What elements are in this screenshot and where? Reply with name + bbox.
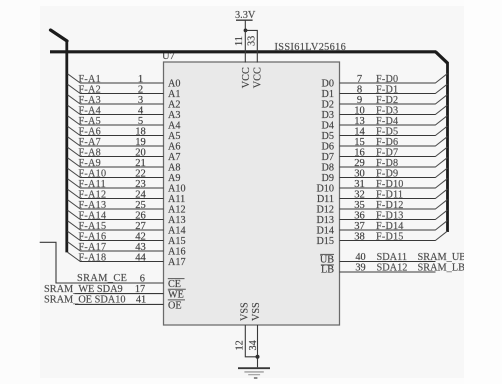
svg-text:5: 5 xyxy=(138,116,143,127)
svg-text:SDA11: SDA11 xyxy=(377,252,408,263)
bus entry for F-D11 xyxy=(435,189,447,198)
pin name A7 xyxy=(168,152,180,163)
net label F-A14 xyxy=(79,210,107,221)
net label F-A15 xyxy=(79,221,107,232)
pin name A17 xyxy=(168,257,186,268)
pin number 7 xyxy=(357,74,362,85)
pin name A3 xyxy=(168,110,180,121)
bus entry for F-D0 xyxy=(435,74,447,83)
net label SRAM_UB xyxy=(418,252,467,263)
pin name D4 xyxy=(322,121,334,132)
data bus bend (top-right diagonal) xyxy=(436,52,448,63)
svg-text:14: 14 xyxy=(354,126,365,137)
net label F-D2 xyxy=(376,95,398,106)
svg-text:F-A12: F-A12 xyxy=(79,189,107,200)
pin number 18 xyxy=(135,126,146,137)
net label F-D8 xyxy=(376,158,398,169)
svg-text:SDA12: SDA12 xyxy=(377,263,408,274)
pin number 26 xyxy=(135,210,146,221)
bus entry for F-A6 xyxy=(68,126,81,135)
pin name A15 xyxy=(168,236,186,247)
bus entry for F-A9 xyxy=(68,158,81,167)
pin number 32 xyxy=(354,189,365,200)
svg-text:D4: D4 xyxy=(322,121,334,132)
bus entry for F-D5 xyxy=(435,126,447,135)
svg-text:30: 30 xyxy=(354,168,365,179)
pin number 39 xyxy=(355,263,365,274)
wire F-A15 to pin 27 xyxy=(80,229,164,231)
pin name D14 xyxy=(316,226,334,237)
wire F-A1 to pin 1 xyxy=(80,82,164,84)
net label F-D7 xyxy=(376,147,398,158)
wire F-A18 to pin 44 xyxy=(80,261,164,263)
bus entry for F-A4 xyxy=(68,105,81,114)
wire pin 32 to F-D11 xyxy=(340,198,436,200)
pin name D0 xyxy=(322,79,334,90)
svg-text:D8: D8 xyxy=(322,163,334,174)
svg-text:F-A7: F-A7 xyxy=(79,137,102,148)
wire F-A9 to pin 21 xyxy=(80,166,164,168)
pin number 37 xyxy=(354,221,365,232)
wire pin 31 to F-D10 xyxy=(340,187,436,189)
svg-text:F-D13: F-D13 xyxy=(376,210,404,221)
pin name VSS second (rotated) xyxy=(251,302,262,321)
pin name A13 xyxy=(168,215,186,226)
bus entry for F-A2 xyxy=(68,84,81,93)
svg-text:A12: A12 xyxy=(168,205,186,216)
svg-text:VCC: VCC xyxy=(241,67,252,88)
svg-text:23: 23 xyxy=(135,179,146,190)
pin number 15 xyxy=(354,137,365,148)
bus entry for F-A15 xyxy=(68,221,81,230)
svg-text:17: 17 xyxy=(135,284,145,295)
net label F-D13 xyxy=(376,210,404,221)
pin number 10 xyxy=(354,105,365,116)
pin number 6 xyxy=(140,273,145,284)
wire pin 9 to F-D2 xyxy=(340,103,436,105)
svg-text:F-D15: F-D15 xyxy=(376,231,404,242)
svg-text:D11: D11 xyxy=(317,194,334,205)
bus entry for F-A10 xyxy=(68,168,81,177)
net label F-D3 xyxy=(376,105,398,116)
pin name D13 xyxy=(316,215,334,226)
data bus vertical (right) xyxy=(446,62,449,232)
wire F-A2 to pin 2 xyxy=(80,93,164,95)
pin number 22 xyxy=(135,168,146,179)
bus entry for F-D1 xyxy=(435,84,447,93)
svg-text:A0: A0 xyxy=(168,79,180,90)
bus entry for F-A14 xyxy=(68,210,81,219)
pin number 8 xyxy=(357,84,362,95)
svg-text:15: 15 xyxy=(354,137,365,148)
svg-text:F-A3: F-A3 xyxy=(79,95,102,106)
pin name A4 xyxy=(168,121,180,132)
svg-text:D1: D1 xyxy=(322,89,334,100)
wire SRAM_OE to pin 41 xyxy=(75,303,164,305)
svg-text:1: 1 xyxy=(138,74,143,85)
wire F-A11 to pin 23 xyxy=(80,187,164,189)
svg-text:D12: D12 xyxy=(316,205,334,216)
pin number 23 xyxy=(135,179,146,190)
wire SRAM_WE to pin 17 xyxy=(75,293,164,295)
power rail 3.3V bar xyxy=(236,19,253,21)
svg-text:SRAM_LB: SRAM_LB xyxy=(418,263,466,274)
IC U7 body (IS61LV25616 SRAM) xyxy=(164,62,340,325)
bus entry for F-A7 xyxy=(68,137,81,146)
net label F-A11 xyxy=(79,179,106,190)
net label F-A12 xyxy=(79,189,107,200)
bus entry for F-D13 xyxy=(435,210,447,219)
wire VSS pin 34 to ground xyxy=(257,325,259,367)
svg-text:2: 2 xyxy=(138,84,143,95)
svg-text:13: 13 xyxy=(354,116,365,127)
pin name A1 xyxy=(168,89,180,100)
net label F-D9 xyxy=(376,168,398,179)
net label F-A16 xyxy=(79,231,107,242)
svg-text:F-A15: F-A15 xyxy=(79,221,107,232)
net label F-D5 xyxy=(376,126,398,137)
scan margin (clips SRAM_UB/SRAM_LB text at scan edge) xyxy=(464,0,502,384)
pin number 2 xyxy=(138,84,143,95)
pin name A8 xyxy=(168,163,180,174)
pin name LB (active low) xyxy=(321,265,334,276)
pin number 24 xyxy=(135,189,146,200)
svg-text:A15: A15 xyxy=(168,236,186,247)
svg-text:34: 34 xyxy=(248,340,259,350)
pin number 19 xyxy=(135,137,146,148)
pin number 44 xyxy=(135,252,146,263)
pin number 30 xyxy=(354,168,365,179)
svg-text:F-D0: F-D0 xyxy=(376,74,398,85)
svg-text:VSS: VSS xyxy=(240,302,251,321)
bus entry for F-A3 xyxy=(68,95,81,104)
net label F-A9 xyxy=(79,158,102,169)
net label F-A4 xyxy=(79,105,102,116)
bus entry for F-D10 xyxy=(435,179,447,188)
svg-text:F-D9: F-D9 xyxy=(376,168,398,179)
svg-text:VCC: VCC xyxy=(252,67,263,88)
svg-text:D0: D0 xyxy=(322,79,334,90)
net label F-A13 xyxy=(79,200,107,211)
net label F-A6 xyxy=(79,126,102,137)
net label F-A7 xyxy=(79,137,102,148)
svg-text:F-A1: F-A1 xyxy=(79,74,102,85)
pin number 40 xyxy=(355,252,365,263)
net label F-D4 xyxy=(376,116,398,127)
pin name D15 xyxy=(316,236,334,247)
wire pin 35 to F-D12 xyxy=(340,208,436,210)
net label SRAM_LB xyxy=(418,263,466,274)
svg-text:F-A17: F-A17 xyxy=(79,242,107,253)
address bus vertical (left) xyxy=(65,40,68,252)
svg-text:F-A16: F-A16 xyxy=(79,231,107,242)
pin number 43 xyxy=(135,242,146,253)
svg-text:22: 22 xyxy=(135,168,146,179)
svg-text:D2: D2 xyxy=(322,100,334,111)
pin name A12 xyxy=(168,205,186,216)
svg-text:16: 16 xyxy=(354,147,365,158)
pin name D6 xyxy=(322,142,334,153)
svg-text:A17: A17 xyxy=(168,257,186,268)
svg-text:A7: A7 xyxy=(168,152,180,163)
svg-text:A4: A4 xyxy=(168,121,180,132)
pin number 42 xyxy=(135,231,146,242)
part number ISSI61LV25616 xyxy=(275,42,347,53)
wire F-A8 to pin 20 xyxy=(80,156,164,158)
wire SRAM_CE L-shape from open end to pin 6 xyxy=(40,242,164,283)
net label F-A17 xyxy=(79,242,107,253)
svg-text:F-D4: F-D4 xyxy=(376,116,398,127)
wire pin 8 to F-D1 xyxy=(340,93,436,95)
svg-text:A13: A13 xyxy=(168,215,186,226)
pin name D5 xyxy=(322,131,334,142)
pin name D11 xyxy=(317,194,334,205)
pin number 12 (rotated) xyxy=(235,340,246,350)
bus entry for F-D4 xyxy=(435,116,447,125)
pin number 25 xyxy=(135,200,146,211)
data bus horizontal (top) xyxy=(50,50,436,53)
wire pin 39 SDA12 xyxy=(340,271,436,273)
svg-text:25: 25 xyxy=(135,200,146,211)
svg-text:A6: A6 xyxy=(168,142,180,153)
net label F-D1 xyxy=(376,84,398,95)
bus entry for F-A17 xyxy=(68,242,81,251)
pin name D2 xyxy=(322,100,334,111)
svg-text:35: 35 xyxy=(354,200,365,211)
pin name A2 xyxy=(168,100,180,111)
wire pin 10 to F-D3 xyxy=(340,114,436,116)
wire pin 16 to F-D7 xyxy=(340,156,436,158)
svg-text:33: 33 xyxy=(246,36,257,46)
svg-text:F-A8: F-A8 xyxy=(79,147,102,158)
svg-text:A1: A1 xyxy=(168,89,180,100)
bus entry for F-A13 xyxy=(68,200,81,209)
net label F-D6 xyxy=(376,137,398,148)
wire branch to VCC pin 33 xyxy=(245,30,257,62)
svg-text:A5: A5 xyxy=(168,131,180,142)
bus entry for F-D15 xyxy=(435,231,447,240)
svg-text:3.3V: 3.3V xyxy=(235,10,256,21)
net label F-D0 xyxy=(376,74,398,85)
net label F-D15 xyxy=(376,231,404,242)
svg-text:D13: D13 xyxy=(316,215,334,226)
pin number 1 xyxy=(138,74,143,85)
svg-text:D5: D5 xyxy=(322,131,334,142)
bus entry for F-D8 xyxy=(435,158,447,167)
svg-text:40: 40 xyxy=(355,252,365,263)
svg-text:SRAM_WE SDA9: SRAM_WE SDA9 xyxy=(44,284,123,295)
pin number 11 (rotated) xyxy=(234,36,245,46)
wire F-A4 to pin 4 xyxy=(80,114,164,116)
pin number 4 xyxy=(138,105,144,116)
svg-text:F-A11: F-A11 xyxy=(79,179,106,190)
pin number 41 xyxy=(136,295,146,306)
pin number 27 xyxy=(135,221,146,232)
svg-text:F-D11: F-D11 xyxy=(376,189,403,200)
pin name A5 xyxy=(168,131,180,142)
svg-text:36: 36 xyxy=(354,210,365,221)
net label F-D14 xyxy=(376,221,404,232)
net label SDA12 xyxy=(377,263,408,274)
pin number 29 xyxy=(354,158,365,169)
svg-text:21: 21 xyxy=(135,158,146,169)
wire pin 29 to F-D8 xyxy=(340,166,436,168)
svg-text:F-A14: F-A14 xyxy=(79,210,107,221)
wire pin 13 to F-D4 xyxy=(340,124,436,126)
pin number 13 xyxy=(354,116,365,127)
svg-text:F-A5: F-A5 xyxy=(79,116,102,127)
pin number 34 (rotated) xyxy=(248,340,259,350)
svg-text:11: 11 xyxy=(234,36,245,46)
bus entry for F-D2 xyxy=(435,95,447,104)
svg-text:F-D12: F-D12 xyxy=(376,200,404,211)
svg-text:LB: LB xyxy=(321,265,334,276)
pin name VCC second (rotated) xyxy=(252,67,263,88)
svg-text:F-A4: F-A4 xyxy=(79,105,102,116)
svg-text:43: 43 xyxy=(135,242,146,253)
pin number 38 xyxy=(354,231,365,242)
svg-text:D7: D7 xyxy=(322,152,334,163)
svg-text:F-D14: F-D14 xyxy=(376,221,404,232)
bus entry for F-D7 xyxy=(435,147,447,156)
net label F-A18 xyxy=(79,252,107,263)
bus entry for F-A16 xyxy=(68,231,81,240)
svg-text:A9: A9 xyxy=(168,173,180,184)
svg-text:A16: A16 xyxy=(168,247,186,258)
pin name D10 xyxy=(316,184,334,195)
net label F-D10 xyxy=(376,179,404,190)
net label SRAM_WE SDA9 xyxy=(44,284,123,295)
pin name VSS (rotated) xyxy=(240,302,251,321)
bus entry for F-A1 xyxy=(68,74,81,83)
svg-text:A11: A11 xyxy=(168,194,185,205)
pin name A6 xyxy=(168,142,180,153)
wire F-A13 to pin 25 xyxy=(80,208,164,210)
wire pin 30 to F-D9 xyxy=(340,177,436,179)
net label SRAM_OE SDA10 xyxy=(44,295,126,306)
svg-text:OE: OE xyxy=(168,300,182,311)
pin name A16 xyxy=(168,247,186,258)
bus entry for F-D3 xyxy=(435,105,447,114)
svg-text:D14: D14 xyxy=(316,226,334,237)
bus entry for F-D6 xyxy=(435,137,447,146)
svg-text:A2: A2 xyxy=(168,100,180,111)
net label F-A10 xyxy=(79,168,107,179)
svg-text:F-A9: F-A9 xyxy=(79,158,102,169)
pin number 20 xyxy=(135,147,146,158)
net label F-A1 xyxy=(79,74,102,85)
svg-text:F-A6: F-A6 xyxy=(79,126,102,137)
svg-text:VSS: VSS xyxy=(251,302,262,321)
svg-text:SRAM_OE SDA10: SRAM_OE SDA10 xyxy=(44,295,126,306)
svg-text:A8: A8 xyxy=(168,163,180,174)
pin name D3 xyxy=(322,110,334,121)
pin name A0 xyxy=(168,79,180,90)
pin name A11 xyxy=(168,194,185,205)
svg-text:44: 44 xyxy=(135,252,146,263)
pin name A14 xyxy=(168,226,186,237)
pin number 17 xyxy=(135,284,145,295)
svg-text:24: 24 xyxy=(135,189,146,200)
svg-text:F-D2: F-D2 xyxy=(376,95,398,106)
svg-text:41: 41 xyxy=(136,295,146,306)
junction node VCC xyxy=(244,29,248,33)
net label SRAM_CE xyxy=(77,273,127,284)
svg-text:F-A13: F-A13 xyxy=(79,200,107,211)
bus entry for F-A5 xyxy=(68,116,81,125)
net label F-D12 xyxy=(376,200,404,211)
pin name A9 xyxy=(168,173,180,184)
bus entry for F-D12 xyxy=(435,200,447,209)
wire F-A10 to pin 22 xyxy=(80,177,164,179)
pin number 21 xyxy=(135,158,146,169)
wire F-A17 to pin 43 xyxy=(80,250,164,252)
wire pin 38 to F-D15 xyxy=(340,240,436,242)
svg-text:4: 4 xyxy=(138,105,144,116)
pin number 3 xyxy=(138,95,143,106)
svg-text:F-A10: F-A10 xyxy=(79,168,107,179)
pin name OE (active low) xyxy=(168,300,185,312)
wire F-A7 to pin 19 xyxy=(80,145,164,147)
svg-text:SRAM_UB: SRAM_UB xyxy=(418,252,467,263)
wire F-A12 to pin 24 xyxy=(80,198,164,200)
svg-text:26: 26 xyxy=(135,210,146,221)
wire VSS pin 12 xyxy=(245,325,257,357)
svg-text:9: 9 xyxy=(357,95,362,106)
svg-text:18: 18 xyxy=(135,126,146,137)
svg-text:42: 42 xyxy=(135,231,146,242)
svg-text:CE: CE xyxy=(168,279,181,290)
svg-text:D3: D3 xyxy=(322,110,334,121)
pin number 16 xyxy=(354,147,365,158)
pin number 33 (rotated) xyxy=(246,36,257,46)
net label F-A3 xyxy=(79,95,102,106)
pin name VCC (rotated) xyxy=(241,67,252,88)
bus entry for F-A8 xyxy=(68,147,81,156)
svg-text:20: 20 xyxy=(135,147,146,158)
svg-text:F-D1: F-D1 xyxy=(376,84,398,95)
wire F-A14 to pin 26 xyxy=(80,219,164,221)
pin name D1 xyxy=(322,89,334,100)
svg-text:D9: D9 xyxy=(322,173,334,184)
wire F-A3 to pin 3 xyxy=(80,103,164,105)
svg-text:6: 6 xyxy=(140,273,145,284)
svg-text:27: 27 xyxy=(135,221,146,232)
wire VCC pin 11 xyxy=(244,30,246,62)
svg-text:D6: D6 xyxy=(322,142,334,153)
svg-text:29: 29 xyxy=(354,158,365,169)
power rail 3.3V label xyxy=(235,10,256,21)
net label F-D11 xyxy=(376,189,403,200)
svg-text:F-A18: F-A18 xyxy=(79,252,107,263)
svg-text:39: 39 xyxy=(355,263,365,274)
pin name A10 xyxy=(168,184,186,195)
svg-text:F-A2: F-A2 xyxy=(79,84,102,95)
wire pin 37 to F-D14 xyxy=(340,229,436,231)
svg-text:F-D7: F-D7 xyxy=(376,147,398,158)
net label SDA11 xyxy=(377,252,408,263)
junction node VSS xyxy=(256,355,260,359)
pin name D7 xyxy=(322,152,334,163)
net label F-A2 xyxy=(79,84,102,95)
svg-text:D15: D15 xyxy=(316,236,334,247)
bus entry for F-A11 xyxy=(68,179,81,188)
address bus stub (top-left diagonal) xyxy=(51,30,68,41)
bus entry for F-A18 xyxy=(68,252,81,261)
pin name D12 xyxy=(316,205,334,216)
svg-text:8: 8 xyxy=(357,84,362,95)
svg-text:F-D3: F-D3 xyxy=(376,105,398,116)
